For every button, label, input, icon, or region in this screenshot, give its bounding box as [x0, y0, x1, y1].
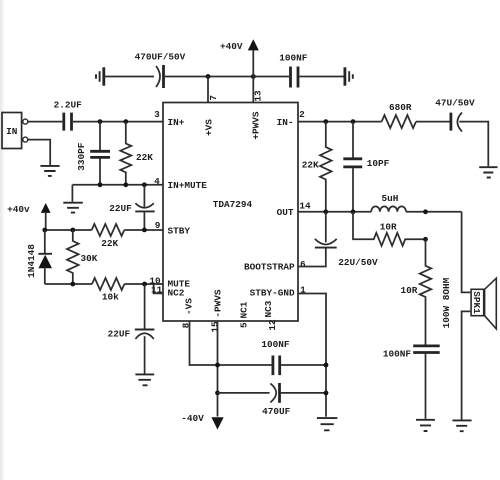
svg-text:TDA7294: TDA7294 — [213, 199, 253, 210]
resistor R 22K stby — [92, 224, 125, 249]
resistor R 680R — [382, 102, 416, 128]
svg-text:NC1: NC1 — [238, 301, 249, 318]
wire 47U to ground — [459, 122, 488, 167]
svg-text:4: 4 — [154, 176, 160, 187]
ground right of 47U — [479, 167, 497, 177]
capacitor C 100NF supply — [261, 339, 326, 375]
wire OUT line — [298, 211, 371, 213]
svg-text:OUT: OUT — [277, 207, 294, 218]
resistor R 10k — [92, 278, 124, 302]
wire STBY line — [45, 229, 92, 231]
resistor R 22K input — [120, 122, 153, 185]
svg-text:47U/50V: 47U/50V — [435, 97, 475, 108]
ground below zobel — [416, 420, 435, 431]
svg-text:IN+MUTE: IN+MUTE — [168, 180, 208, 191]
wire pin2 line — [298, 121, 382, 123]
capacitor C 470UF/50V top — [135, 52, 186, 88]
resistor R 22K feedback — [302, 122, 332, 212]
capacitor C 100NF top — [279, 52, 308, 87]
ground top-left sideways — [96, 67, 104, 85]
power +40V arrow — [220, 39, 259, 76]
node 22UF stby bottom — [142, 228, 147, 233]
wire top bus mid — [165, 76, 289, 78]
svg-text:+40v: +40v — [7, 204, 30, 215]
svg-text:IN+: IN+ — [168, 117, 185, 128]
wire NC2 jog pin11 — [154, 284, 163, 293]
svg-text:STBY: STBY — [168, 226, 191, 237]
wire STBY-GND pin1 — [298, 294, 326, 417]
svg-text:+PWVS: +PWVS — [251, 111, 262, 140]
capacitor C 22U/50V bootstrap — [298, 212, 378, 268]
resistor R 30K — [67, 230, 98, 284]
power -40V arrow — [181, 413, 223, 429]
svg-text:6: 6 — [300, 259, 306, 270]
svg-text:3: 3 — [154, 109, 160, 120]
node 330PF top — [98, 119, 103, 124]
wire pin4 line — [72, 184, 163, 186]
svg-text:-40V: -40V — [181, 413, 204, 424]
wire rail2 left — [218, 392, 270, 394]
power +40v arrow left — [7, 203, 50, 230]
ground below speaker — [452, 420, 471, 431]
node 330PF bottom — [98, 182, 103, 187]
wire IN top terminal to C1 — [28, 121, 62, 123]
wire C1 to pin3 — [73, 121, 163, 123]
inductor L 5uH — [371, 193, 406, 212]
node zobel top — [423, 209, 428, 214]
wire +VS stub pin7 — [207, 77, 209, 103]
ground below pin1 column — [317, 418, 338, 430]
svg-text:22UF: 22UF — [108, 328, 131, 339]
node 30K bottom — [70, 282, 75, 287]
svg-text:+VS: +VS — [203, 119, 214, 136]
capacitor C 22UF mute — [108, 284, 155, 374]
capacitor C 330PF — [76, 122, 110, 185]
node 10PF top — [351, 119, 356, 124]
wire +PWVS stub pin13 — [252, 77, 254, 103]
svg-text:22U/50V: 22U/50V — [338, 257, 378, 268]
svg-text:IN: IN — [6, 126, 18, 137]
svg-text:10k: 10k — [102, 291, 119, 302]
svg-text:330PF: 330PF — [76, 142, 87, 171]
connector IN jack — [2, 113, 28, 149]
node 10R branch top — [351, 209, 356, 214]
svg-text:30K: 30K — [81, 253, 98, 264]
svg-text:100NF: 100NF — [383, 348, 412, 359]
svg-text:5: 5 — [238, 322, 249, 328]
svg-text:10R: 10R — [401, 285, 418, 296]
node pin7 junction — [206, 74, 211, 79]
capacitor C 2.2UF — [54, 100, 83, 131]
node pin13 junction — [251, 74, 256, 79]
svg-text:14: 14 — [299, 201, 311, 212]
svg-text:5uH: 5uH — [381, 193, 398, 204]
wire top bus right — [299, 76, 343, 78]
node bootstrap top — [323, 209, 328, 214]
svg-text:22K: 22K — [101, 238, 118, 249]
svg-text:SPK1: SPK1 — [471, 291, 482, 314]
capacitor C 100NF zobel — [383, 346, 440, 419]
svg-text:BOOTSTRAP: BOOTSTRAP — [244, 261, 295, 272]
svg-text:470UF/50V: 470UF/50V — [135, 52, 186, 63]
wire MUTE line — [45, 283, 92, 285]
wire pin4 line drop to ground — [71, 185, 73, 202]
svg-text:STBY-GND: STBY-GND — [250, 288, 295, 299]
svg-text:100W 8OHM: 100W 8OHM — [441, 277, 452, 328]
node arrow-diode junction — [42, 228, 47, 233]
svg-text:-PWVS: -PWVS — [213, 289, 224, 318]
IC U1 TDA7294 body — [163, 103, 298, 322]
svg-text:10R: 10R — [380, 222, 397, 233]
capacitor C 10PF — [343, 122, 389, 212]
wire IN bottom terminal — [28, 140, 50, 165]
svg-text:1N4148: 1N4148 — [26, 244, 37, 278]
svg-text:2.2UF: 2.2UF — [54, 100, 83, 111]
ground below pin4 line — [63, 203, 83, 213]
svg-text:13: 13 — [253, 90, 264, 102]
node 22UF top — [142, 182, 147, 187]
svg-text:22UF: 22UF — [109, 203, 132, 214]
node 22K fb top — [323, 119, 328, 124]
svg-text:9: 9 — [155, 220, 161, 231]
wire -VS pin8 drop — [190, 321, 273, 365]
svg-text:2: 2 — [299, 109, 305, 120]
node 30K top — [70, 228, 75, 233]
svg-text:470UF: 470UF — [262, 406, 291, 417]
svg-text:10PF: 10PF — [367, 158, 390, 169]
node 22UF mute top — [142, 282, 147, 287]
diode D 1N4148 — [26, 230, 52, 284]
svg-text:+40V: +40V — [220, 41, 243, 52]
svg-text:NC2: NC2 — [168, 287, 185, 298]
svg-text:22K: 22K — [136, 152, 153, 163]
resistor R 10R zobel — [401, 239, 432, 345]
capacitor C 47U/50V — [435, 97, 475, 131]
wire top bus left — [105, 76, 154, 78]
wire 5uH to speaker column — [406, 211, 462, 213]
svg-text:11: 11 — [151, 284, 163, 295]
svg-text:-VS: -VS — [184, 298, 195, 315]
node rail1 right — [324, 363, 329, 368]
node 22K top — [123, 119, 128, 124]
svg-text:100NF: 100NF — [279, 52, 308, 63]
node 10R parallel right — [423, 237, 428, 242]
wire STBY line right — [124, 229, 163, 231]
wire MUTE line right — [124, 283, 163, 285]
node rail2 right — [324, 391, 329, 396]
svg-text:7: 7 — [208, 95, 219, 101]
svg-text:12: 12 — [267, 319, 278, 331]
svg-text:NC3: NC3 — [263, 300, 274, 317]
ground top-right sideways — [345, 67, 353, 85]
wire 680R to C 47U — [416, 121, 450, 123]
svg-text:680R: 680R — [389, 102, 412, 113]
speaker SPK1 — [462, 212, 497, 420]
capacitor C 22UF stby — [109, 185, 154, 230]
capacitor C 470UF supply — [262, 383, 326, 417]
ground under IN — [40, 166, 59, 176]
svg-text:IN-: IN- — [277, 117, 294, 128]
wire -PWVS pin15 drop — [217, 321, 219, 417]
node rail2 pin15 — [215, 391, 220, 396]
svg-text:100NF: 100NF — [261, 339, 290, 350]
node rail1 pin15 — [215, 363, 220, 368]
svg-text:22K: 22K — [302, 160, 319, 171]
resistor R 10R parallel — [353, 212, 426, 246]
node 22K bottom — [123, 182, 128, 187]
svg-text:15: 15 — [209, 321, 220, 333]
ground under 22UF mute — [135, 374, 154, 385]
